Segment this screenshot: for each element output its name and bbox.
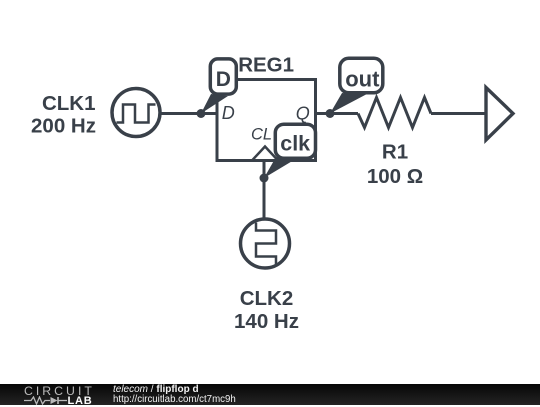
svg-text:200 Hz: 200 Hz xyxy=(31,115,96,138)
svg-text:CL: CL xyxy=(251,126,272,144)
svg-text:CLK1: CLK1 xyxy=(42,92,96,115)
svg-text:D: D xyxy=(216,68,231,91)
svg-text:140 Hz: 140 Hz xyxy=(234,310,299,333)
svg-text:out: out xyxy=(345,67,380,92)
svg-text:D: D xyxy=(222,103,235,123)
svg-text:clk: clk xyxy=(280,132,310,156)
svg-text:R1: R1 xyxy=(382,141,408,164)
svg-text:REG1: REG1 xyxy=(238,54,294,77)
svg-text:CLK2: CLK2 xyxy=(240,287,294,310)
svg-text:100 Ω: 100 Ω xyxy=(367,165,423,188)
svg-text:Q: Q xyxy=(296,104,310,124)
